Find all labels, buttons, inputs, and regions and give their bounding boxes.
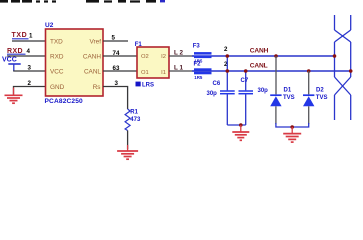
node junction CANL/C6 riser — [226, 69, 230, 73]
svg-text:TXD: TXD — [50, 38, 63, 45]
diode D2 TVS — [303, 87, 327, 106]
filter F1 body — [137, 47, 169, 78]
svg-text:R1: R1 — [130, 110, 138, 116]
svg-text:O2: O2 — [141, 54, 149, 60]
choke F3 — [193, 44, 212, 64]
ground (below R1) — [117, 145, 138, 159]
wire RXD to pin 4 — [7, 55, 46, 57]
choke F2 — [194, 61, 212, 79]
svg-text:C6: C6 — [213, 81, 221, 87]
wire F1 I2 to CANH line — [169, 55, 194, 57]
svg-text:Rs: Rs — [93, 84, 101, 91]
twist crossing upper — [335, 30, 351, 42]
svg-text:RXD: RXD — [50, 53, 64, 60]
wire C6 lower lead — [226, 94, 228, 125]
svg-text:CANH: CANH — [83, 53, 101, 60]
svg-text:TXD: TXD — [12, 32, 28, 39]
wire D2 lower lead — [308, 106, 310, 124]
wire CANL pin to F1 — [103, 70, 137, 72]
svg-text:F2: F2 — [194, 61, 202, 67]
svg-text:F3: F3 — [193, 44, 201, 50]
wire D2 upper lead — [308, 71, 310, 94]
node junction CANH/bus — [333, 54, 337, 58]
svg-text:O1: O1 — [141, 70, 149, 76]
wire diode common — [276, 123, 309, 127]
svg-text:C7: C7 — [241, 78, 249, 84]
svg-text:PCA82C250: PCA82C250 — [45, 98, 84, 105]
node junction CANH/D1 — [274, 54, 278, 58]
ground (below D1 D2) — [283, 127, 301, 142]
power port VCC — [2, 57, 21, 72]
svg-text:CANL: CANL — [250, 62, 268, 69]
svg-text:2: 2 — [224, 46, 228, 53]
svg-text:30p: 30p — [207, 91, 218, 97]
node junction cap ground — [239, 123, 243, 127]
svg-text:30p: 30p — [258, 88, 269, 94]
twisted pair right conductor — [350, 15, 352, 120]
wire D1 upper lead — [275, 56, 277, 94]
part number label under F1 — [136, 82, 155, 89]
svg-text:D1: D1 — [284, 87, 292, 93]
svg-text:CANL: CANL — [84, 68, 101, 75]
svg-text:VCC: VCC — [2, 57, 17, 64]
svg-text:CANH: CANH — [250, 47, 269, 54]
svg-text:U2: U2 — [45, 22, 54, 29]
svg-text:D2: D2 — [316, 87, 324, 93]
wire TXD to pin 1 — [12, 40, 46, 42]
wire D1 lower lead — [275, 106, 277, 124]
node junction CANL/bus — [349, 69, 353, 73]
svg-text:473: 473 — [130, 117, 141, 123]
svg-text:4: 4 — [27, 48, 31, 55]
node junction CANH/C6 — [226, 54, 230, 58]
ground (left, GND pin) — [5, 88, 23, 104]
svg-text:1R5: 1R5 — [194, 75, 203, 80]
svg-text:I1: I1 — [161, 70, 166, 76]
svg-text:TVS: TVS — [316, 95, 328, 101]
resistor R1 — [125, 109, 141, 131]
wire Rs pin to R1 — [103, 87, 128, 110]
wire R1 to ground — [127, 131, 129, 150]
wire F1 I1 to CANL line — [169, 70, 194, 72]
node junction CANL/D2 — [307, 69, 311, 73]
svg-text:LRS: LRS — [142, 83, 154, 89]
twisted pair left conductor — [334, 15, 336, 120]
svg-text:F1: F1 — [135, 42, 143, 48]
svg-text:3: 3 — [115, 80, 119, 87]
wire CANH pin to F1 — [103, 55, 137, 57]
IC U2 PCA82C250 body — [46, 29, 104, 96]
wire C6 riser — [226, 56, 228, 90]
net label TXD — [12, 32, 29, 39]
wire pin 2 to ground — [14, 87, 46, 95]
capacitor C6 — [207, 81, 235, 97]
twist crossing lower — [335, 77, 351, 95]
wire capacitors common — [227, 124, 245, 126]
svg-text:VCC: VCC — [50, 68, 64, 75]
svg-text:TVS: TVS — [283, 95, 295, 101]
node junction CANL/C7 — [244, 69, 248, 73]
node junction diode ground — [290, 125, 294, 129]
pin 5 stub (Vref) — [103, 40, 128, 42]
svg-text:GND: GND — [50, 84, 65, 91]
wire C7 riser — [245, 71, 247, 90]
wire C7 lower lead — [245, 94, 247, 125]
wire VCC to pin 3 — [13, 70, 45, 72]
net label RXD — [7, 48, 26, 55]
cropped caption text fragments at top edge — [0, 0, 165, 3]
svg-text:Vref: Vref — [90, 38, 102, 45]
svg-text:2: 2 — [28, 80, 32, 87]
svg-text:1: 1 — [29, 32, 33, 39]
diode D1 TVS — [270, 87, 294, 106]
svg-text:I2: I2 — [161, 54, 166, 60]
ground (below C6 C7) — [232, 125, 249, 140]
capacitor C7 — [239, 78, 269, 94]
